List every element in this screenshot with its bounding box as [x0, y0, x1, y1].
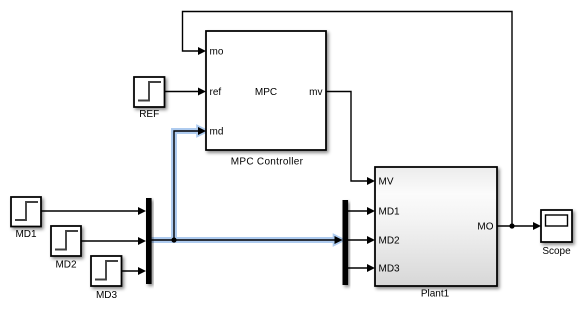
wire: MD1 block to mux [41, 207, 146, 215]
wire: mv output to MV port [326, 92, 375, 186]
wire: demux to MD2 port [348, 236, 375, 244]
svg-text:MPC Controller: MPC Controller [231, 157, 304, 168]
wire: demux to MD1 port [348, 207, 375, 215]
svg-text:REF: REF [139, 109, 159, 120]
svg-text:MD2: MD2 [55, 260, 77, 271]
wire: MD2 block to mux [81, 237, 146, 245]
block: step source MD2 [51, 226, 81, 256]
svg-text:MO: MO [477, 222, 493, 233]
wire: MD3 block to mux [122, 267, 147, 275]
wire: highlighted md signal mux to demux (blue halo) [152, 127, 343, 244]
mux: input mux bar [146, 198, 152, 284]
block: Plant1 subsystem [375, 167, 497, 286]
svg-text:MD3: MD3 [96, 290, 118, 301]
junction: md branch dot [171, 237, 176, 242]
block: step source MD1 [11, 197, 41, 227]
svg-text:MV: MV [379, 177, 394, 188]
block: Scope sink [541, 210, 572, 242]
wire: feedback from MO junction to mo port [183, 12, 513, 227]
junction: MO feedback dot [509, 223, 514, 228]
svg-text:Plant1: Plant1 [421, 289, 450, 300]
block: MPC Controller U1 [206, 31, 326, 150]
wire: REF to ref port [165, 88, 207, 96]
svg-text:MD1: MD1 [15, 229, 37, 240]
svg-text:ref: ref [210, 87, 222, 98]
svg-text:MPC: MPC [255, 87, 277, 98]
svg-text:md: md [210, 127, 224, 138]
block: step source REF [134, 77, 165, 107]
wire: MO output to Scope [497, 222, 541, 230]
svg-text:MD2: MD2 [379, 236, 401, 247]
mux: demux bar [343, 200, 349, 285]
block: step source MD3 [91, 256, 122, 286]
svg-text:MD1: MD1 [379, 207, 401, 218]
svg-text:Scope: Scope [542, 246, 571, 257]
svg-text:mo: mo [210, 47, 224, 58]
svg-text:MD3: MD3 [379, 264, 401, 275]
svg-text:mv: mv [309, 87, 322, 98]
wire: demux to MD3 port [348, 264, 375, 272]
